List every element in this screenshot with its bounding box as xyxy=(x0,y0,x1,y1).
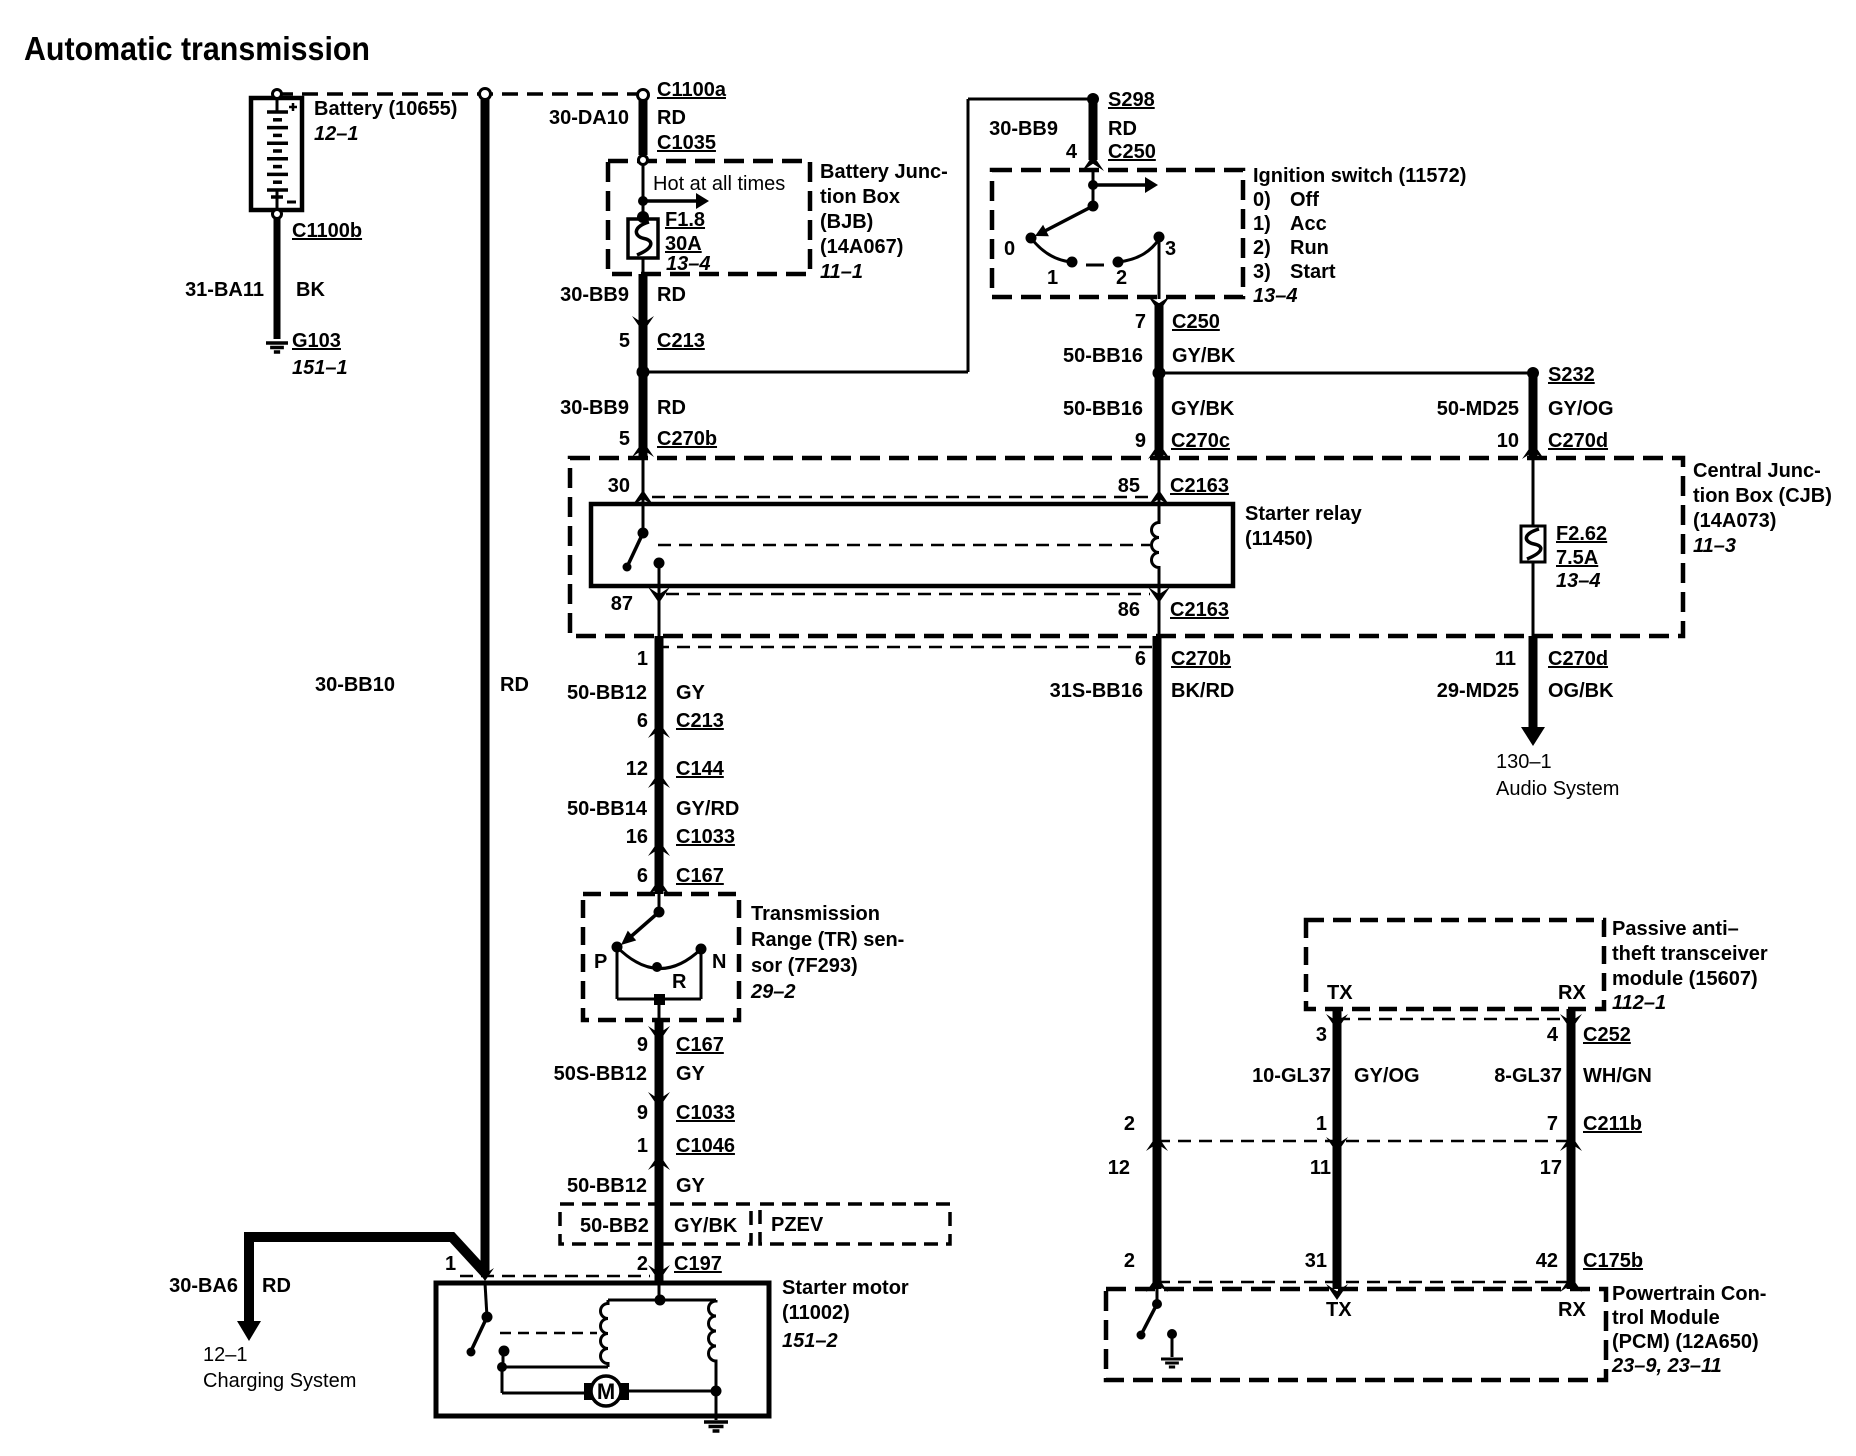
svg-text:112–1: 112–1 xyxy=(1612,992,1666,1014)
svg-text:151–1: 151–1 xyxy=(292,357,348,379)
svg-text:RD: RD xyxy=(657,284,686,306)
svg-text:S298: S298 xyxy=(1108,89,1155,111)
svg-text:31-BA11: 31-BA11 xyxy=(185,279,264,301)
svg-text:C1035: C1035 xyxy=(657,132,716,154)
svg-text:Powertrain Con-: Powertrain Con- xyxy=(1612,1283,1766,1305)
svg-text:GY/OG: GY/OG xyxy=(1354,1065,1420,1087)
svg-text:C250: C250 xyxy=(1172,311,1220,333)
svg-text:17: 17 xyxy=(1540,1157,1562,1179)
svg-text:Start: Start xyxy=(1290,261,1336,283)
svg-text:6: 6 xyxy=(1135,648,1146,670)
svg-text:1: 1 xyxy=(445,1253,456,1275)
svg-text:WH/GN: WH/GN xyxy=(1583,1065,1652,1087)
svg-text:13–4: 13–4 xyxy=(666,253,711,275)
svg-text:1: 1 xyxy=(637,648,648,670)
svg-text:30-BB9: 30-BB9 xyxy=(989,118,1058,140)
svg-text:C1100b: C1100b xyxy=(292,220,362,242)
svg-text:OG/BK: OG/BK xyxy=(1548,680,1614,702)
svg-text:C270d: C270d xyxy=(1548,430,1608,452)
svg-text:RX: RX xyxy=(1558,982,1586,1004)
svg-text:50-BB2: 50-BB2 xyxy=(580,1215,649,1237)
svg-text:3: 3 xyxy=(1316,1024,1327,1046)
svg-text:4: 4 xyxy=(1066,141,1078,163)
svg-text:30-BA6: 30-BA6 xyxy=(169,1275,238,1297)
svg-text:C270b: C270b xyxy=(657,428,717,450)
svg-text:6: 6 xyxy=(637,865,648,887)
svg-text:RD: RD xyxy=(262,1275,291,1297)
svg-text:50-BB16: 50-BB16 xyxy=(1063,398,1143,420)
svg-text:Central Junc-: Central Junc- xyxy=(1693,460,1821,482)
svg-text:13–4: 13–4 xyxy=(1253,285,1298,307)
svg-text:Transmission: Transmission xyxy=(751,903,880,925)
svg-text:13–4: 13–4 xyxy=(1556,570,1601,592)
svg-text:2: 2 xyxy=(1116,267,1127,289)
svg-text:50-BB12: 50-BB12 xyxy=(567,682,647,704)
svg-text:TX: TX xyxy=(1327,982,1353,1004)
svg-text:50-BB16: 50-BB16 xyxy=(1063,345,1143,367)
svg-text:C144: C144 xyxy=(676,758,725,780)
svg-text:C211b: C211b xyxy=(1583,1113,1642,1135)
svg-text:C250: C250 xyxy=(1108,141,1156,163)
svg-text:16: 16 xyxy=(626,826,648,848)
svg-text:0): 0) xyxy=(1253,189,1271,211)
svg-text:Starter relay: Starter relay xyxy=(1245,503,1363,525)
svg-text:Range (TR) sen-: Range (TR) sen- xyxy=(751,929,904,951)
svg-text:RX: RX xyxy=(1558,1299,1586,1321)
svg-text:C167: C167 xyxy=(676,865,724,887)
svg-text:85: 85 xyxy=(1118,475,1140,497)
svg-text:TX: TX xyxy=(1326,1299,1352,1321)
svg-text:2): 2) xyxy=(1253,237,1271,259)
svg-text:M: M xyxy=(597,1379,615,1404)
svg-text:Run: Run xyxy=(1290,237,1329,259)
svg-text:RD: RD xyxy=(657,397,686,419)
svg-text:GY: GY xyxy=(676,682,706,704)
svg-text:9: 9 xyxy=(637,1034,648,1056)
svg-text:R: R xyxy=(672,971,687,993)
svg-text:12: 12 xyxy=(1108,1157,1130,1179)
svg-text:C213: C213 xyxy=(676,710,724,732)
svg-text:G103: G103 xyxy=(292,330,341,352)
svg-text:C1100a: C1100a xyxy=(657,79,727,101)
svg-text:9: 9 xyxy=(637,1102,648,1124)
svg-text:F2.62: F2.62 xyxy=(1556,523,1607,545)
svg-text:GY/OG: GY/OG xyxy=(1548,398,1614,420)
svg-text:30-BB10: 30-BB10 xyxy=(315,674,395,696)
svg-text:C1033: C1033 xyxy=(676,1102,735,1124)
svg-text:PZEV: PZEV xyxy=(771,1214,824,1236)
svg-text:N: N xyxy=(712,951,726,973)
svg-text:Hot at all times: Hot at all times xyxy=(653,173,785,195)
svg-text:C167: C167 xyxy=(676,1034,724,1056)
svg-text:42: 42 xyxy=(1536,1250,1558,1272)
svg-text:30-BB9: 30-BB9 xyxy=(560,284,629,306)
svg-text:module (15607): module (15607) xyxy=(1612,968,1758,990)
svg-text:Automatic transmission: Automatic transmission xyxy=(24,30,370,67)
svg-text:S232: S232 xyxy=(1548,364,1595,386)
svg-text:GY/RD: GY/RD xyxy=(676,798,739,820)
svg-text:Acc: Acc xyxy=(1290,213,1327,235)
svg-text:GY/BK: GY/BK xyxy=(674,1215,738,1237)
svg-text:23–9, 23–11: 23–9, 23–11 xyxy=(1611,1355,1722,1377)
svg-text:C252: C252 xyxy=(1583,1024,1631,1046)
svg-text:29–2: 29–2 xyxy=(750,981,796,1003)
svg-text:11: 11 xyxy=(1310,1157,1331,1179)
svg-text:F1.8: F1.8 xyxy=(665,209,705,231)
svg-text:11: 11 xyxy=(1495,648,1516,670)
svg-text:GY/BK: GY/BK xyxy=(1172,345,1236,367)
svg-text:151–2: 151–2 xyxy=(782,1330,838,1352)
svg-text:(BJB): (BJB) xyxy=(820,211,873,233)
svg-text:sor (7F293): sor (7F293) xyxy=(751,955,858,977)
svg-text:1): 1) xyxy=(1253,213,1271,235)
svg-text:31S-BB16: 31S-BB16 xyxy=(1050,680,1143,702)
svg-text:C1033: C1033 xyxy=(676,826,735,848)
svg-text:6: 6 xyxy=(637,710,648,732)
svg-text:4: 4 xyxy=(1547,1024,1559,1046)
svg-text:Charging System: Charging System xyxy=(203,1370,356,1392)
svg-text:8-GL37: 8-GL37 xyxy=(1494,1065,1562,1087)
svg-text:30A: 30A xyxy=(665,233,702,255)
svg-text:1: 1 xyxy=(1316,1113,1327,1135)
svg-text:C1046: C1046 xyxy=(676,1135,735,1157)
svg-text:RD: RD xyxy=(1108,118,1137,140)
svg-text:trol Module: trol Module xyxy=(1612,1307,1720,1329)
svg-text:3): 3) xyxy=(1253,261,1271,283)
svg-text:9: 9 xyxy=(1135,430,1146,452)
svg-text:1: 1 xyxy=(637,1135,648,1157)
svg-text:C2163: C2163 xyxy=(1170,475,1229,497)
svg-text:Battery (10655): Battery (10655) xyxy=(314,98,457,120)
svg-text:2: 2 xyxy=(1124,1113,1135,1135)
svg-text:5: 5 xyxy=(619,428,630,450)
svg-text:tion Box: tion Box xyxy=(820,186,900,208)
svg-text:BK/RD: BK/RD xyxy=(1171,680,1234,702)
svg-text:30-DA10: 30-DA10 xyxy=(549,107,629,129)
svg-text:C175b: C175b xyxy=(1583,1250,1643,1272)
svg-text:11–3: 11–3 xyxy=(1693,535,1736,557)
svg-text:50-BB12: 50-BB12 xyxy=(567,1175,647,1197)
svg-text:(11450): (11450) xyxy=(1245,528,1313,550)
svg-text:Ignition switch (11572): Ignition switch (11572) xyxy=(1253,165,1466,187)
svg-text:0: 0 xyxy=(1004,238,1015,260)
svg-text:10-GL37: 10-GL37 xyxy=(1252,1065,1331,1087)
svg-text:3: 3 xyxy=(1165,238,1176,260)
svg-text:Battery Junc-: Battery Junc- xyxy=(820,161,948,183)
svg-text:7.5A: 7.5A xyxy=(1556,547,1598,569)
svg-text:(11002): (11002) xyxy=(782,1302,850,1324)
svg-text:2: 2 xyxy=(637,1253,648,1275)
svg-text:7: 7 xyxy=(1547,1113,1558,1135)
svg-text:C270b: C270b xyxy=(1171,648,1231,670)
svg-text:10: 10 xyxy=(1497,430,1519,452)
svg-text:1: 1 xyxy=(1047,267,1058,289)
svg-text:(14A073): (14A073) xyxy=(1693,510,1776,532)
svg-text:P: P xyxy=(594,951,607,973)
svg-text:2: 2 xyxy=(1124,1250,1135,1272)
svg-text:12–1: 12–1 xyxy=(314,123,359,145)
svg-text:RD: RD xyxy=(500,674,529,696)
svg-text:C270c: C270c xyxy=(1171,430,1230,452)
svg-text:GY: GY xyxy=(676,1175,706,1197)
svg-text:(PCM) (12A650): (PCM) (12A650) xyxy=(1612,1331,1759,1353)
svg-text:C2163: C2163 xyxy=(1170,599,1229,621)
svg-text:50-BB14: 50-BB14 xyxy=(567,798,648,820)
svg-text:130–1: 130–1 xyxy=(1496,751,1552,773)
svg-text:87: 87 xyxy=(611,593,633,615)
svg-text:GY: GY xyxy=(676,1063,706,1085)
svg-text:12: 12 xyxy=(626,758,648,780)
svg-text:C213: C213 xyxy=(657,330,705,352)
svg-text:BK: BK xyxy=(296,279,325,301)
svg-text:31: 31 xyxy=(1305,1250,1327,1272)
svg-text:29-MD25: 29-MD25 xyxy=(1437,680,1519,702)
svg-text:Off: Off xyxy=(1290,189,1319,211)
svg-text:86: 86 xyxy=(1118,599,1140,621)
svg-text:5: 5 xyxy=(619,330,630,352)
svg-text:C270d: C270d xyxy=(1548,648,1608,670)
svg-text:(14A067): (14A067) xyxy=(820,236,903,258)
svg-text:RD: RD xyxy=(657,107,686,129)
svg-text:7: 7 xyxy=(1135,311,1146,333)
svg-text:11–1: 11–1 xyxy=(820,261,863,283)
svg-text:50S-BB12: 50S-BB12 xyxy=(554,1063,647,1085)
svg-text:30: 30 xyxy=(608,475,630,497)
svg-text:12–1: 12–1 xyxy=(203,1344,248,1366)
svg-text:Audio System: Audio System xyxy=(1496,778,1619,800)
svg-text:Passive anti–: Passive anti– xyxy=(1612,918,1739,940)
svg-text:theft transceiver: theft transceiver xyxy=(1612,943,1768,965)
svg-text:30-BB9: 30-BB9 xyxy=(560,397,629,419)
svg-text:50-MD25: 50-MD25 xyxy=(1437,398,1519,420)
svg-text:tion Box (CJB): tion Box (CJB) xyxy=(1693,485,1832,507)
svg-text:GY/BK: GY/BK xyxy=(1171,398,1235,420)
svg-text:Starter motor: Starter motor xyxy=(782,1277,909,1299)
svg-text:C197: C197 xyxy=(674,1253,722,1275)
